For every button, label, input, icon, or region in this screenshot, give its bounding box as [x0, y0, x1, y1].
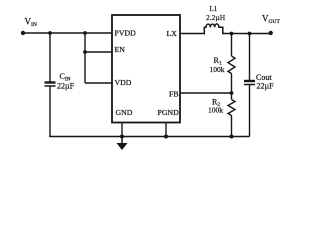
wire inductor to VOUT	[223, 33, 271, 35]
wire VDD	[85, 82, 112, 84]
svg-text:100k: 100k	[210, 65, 225, 74]
wire bottom rail	[49, 136, 249, 138]
op-amp U1 (regulator IC body)	[112, 15, 180, 123]
wire CIN top	[49, 33, 51, 82]
wire VIN to PVDD	[23, 32, 112, 34]
wire GND pin	[121, 123, 123, 137]
wire Cout top	[249, 34, 251, 81]
resistor R1	[228, 34, 235, 94]
svg-text:22µF: 22µF	[257, 82, 275, 91]
svg-text:LX: LX	[167, 29, 178, 38]
resistor R2	[228, 93, 235, 137]
svg-text:PGND: PGND	[158, 108, 180, 117]
svg-text:22µF: 22µF	[57, 82, 75, 91]
svg-text:PVDD: PVDD	[115, 29, 137, 38]
capacitor Cout	[244, 81, 255, 85]
wire EN	[85, 51, 112, 53]
svg-text:EN: EN	[115, 45, 126, 54]
wire LX to inductor	[180, 33, 204, 35]
ground	[117, 137, 128, 151]
node junction GND	[120, 135, 124, 139]
svg-text:100k: 100k	[208, 106, 223, 115]
node junction EN	[83, 50, 87, 54]
inductor L1	[204, 24, 223, 34]
node junction Cout	[248, 32, 252, 36]
wire PGND pin	[165, 123, 167, 137]
node junction R2 bottom	[230, 135, 234, 139]
svg-text:2.2µH: 2.2µH	[206, 13, 226, 22]
node VIN terminal	[21, 31, 25, 35]
wire EN branch vertical	[84, 33, 86, 83]
node junction EN branch	[83, 31, 87, 35]
node junction CIN	[48, 31, 52, 35]
wire CIN bottom	[49, 87, 51, 138]
svg-text:FB: FB	[169, 90, 179, 99]
svg-text:VDD: VDD	[115, 78, 132, 87]
svg-text:GND: GND	[116, 108, 133, 117]
capacitor CIN	[45, 83, 56, 87]
wire Cout bottom	[249, 85, 251, 137]
node junction FB	[230, 91, 234, 95]
svg-text:L1: L1	[210, 5, 218, 13]
node junction R1	[230, 32, 234, 36]
node junction PGND	[164, 135, 168, 139]
wire FB	[180, 92, 232, 94]
node VOUT terminal	[269, 31, 273, 35]
